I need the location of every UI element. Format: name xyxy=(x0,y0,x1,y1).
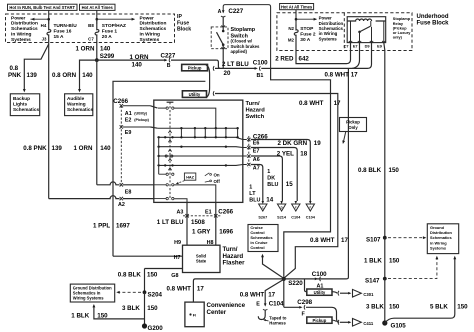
svg-text:in Wiring: in Wiring xyxy=(11,32,32,38)
turn/hazard flasher box xyxy=(183,245,221,272)
svg-text:18: 18 xyxy=(300,150,307,157)
svg-text:Systems: Systems xyxy=(11,37,31,43)
splice S147 xyxy=(383,277,387,281)
wire 1 BLK 150 up to ground dist box xyxy=(94,306,145,319)
svg-text:Distribution: Distribution xyxy=(140,21,167,27)
svg-text:150: 150 xyxy=(457,304,468,311)
svg-text:Systems: Systems xyxy=(140,37,160,43)
svg-text:E7: E7 xyxy=(253,149,260,155)
wire: 0.8 WHT continues to relay xyxy=(271,67,352,69)
svg-text:C227: C227 xyxy=(161,53,176,60)
svg-text:C: C xyxy=(262,206,264,210)
wire 5 BLK 150 xyxy=(385,258,455,324)
svg-text:C7: C7 xyxy=(88,36,94,41)
svg-text:F: F xyxy=(295,206,297,210)
wire S220 to C104 E stub xyxy=(265,280,282,305)
box: Ground Distribution Schematics (left) xyxy=(70,284,114,302)
svg-text:3 BLK: 3 BLK xyxy=(122,305,140,312)
svg-text:17: 17 xyxy=(197,286,204,293)
svg-text:0.8 WHT: 0.8 WHT xyxy=(299,100,324,107)
svg-text:E7: E7 xyxy=(353,44,358,49)
svg-text:Flasher: Flasher xyxy=(223,260,246,267)
svg-text:140: 140 xyxy=(100,46,111,53)
svg-text:E9: E9 xyxy=(377,44,383,49)
ground G200 xyxy=(142,323,147,328)
header box: Hot In RUN, Bulb Test And START xyxy=(8,4,78,10)
svg-text:(Pickup): (Pickup) xyxy=(134,118,149,122)
svg-text:C227: C227 xyxy=(228,8,243,15)
wire: PPL flasher feed top xyxy=(113,81,205,256)
svg-text:1697: 1697 xyxy=(116,222,130,229)
wire: 0.8 BLK 150 from relay E9 xyxy=(384,43,385,238)
connector C100 pin B1 xyxy=(255,67,258,70)
svg-text:STOP: STOP xyxy=(300,26,314,32)
svg-text:(Pickup: (Pickup xyxy=(393,26,407,30)
wire 1 GRY 1696 xyxy=(215,216,217,245)
svg-text:A7: A7 xyxy=(253,166,260,172)
triangle connector S214 xyxy=(277,204,285,211)
connector C100 pin A1 xyxy=(315,278,318,281)
svg-text:Fuse: Fuse xyxy=(177,20,189,26)
svg-text:1 ORN: 1 ORN xyxy=(76,46,95,53)
svg-text:15: 15 xyxy=(286,181,293,188)
wire E8 feed with hop over PPL xyxy=(97,182,120,185)
wire branch to backup lights xyxy=(24,44,48,91)
svg-text:C104: C104 xyxy=(291,215,301,219)
Utility tag xyxy=(182,91,206,98)
svg-text:C266: C266 xyxy=(113,98,128,105)
svg-text:D: D xyxy=(281,206,283,210)
svg-text:B8: B8 xyxy=(88,23,94,28)
switch actuator dashed line xyxy=(169,102,171,200)
arrow to power distribution note (left) xyxy=(31,18,49,20)
connector into C301 xyxy=(337,291,340,296)
svg-text:Schematics: Schematics xyxy=(140,26,167,32)
svg-text:E8: E8 xyxy=(125,190,132,196)
svg-text:S204: S204 xyxy=(148,291,163,298)
triangle connector C301 xyxy=(348,292,351,295)
svg-text:(Utility): (Utility) xyxy=(134,112,147,116)
svg-text:Hot At All Times: Hot At All Times xyxy=(281,5,313,10)
svg-text:1 ORN: 1 ORN xyxy=(130,54,149,61)
svg-text:S220: S220 xyxy=(288,280,303,287)
svg-text:14: 14 xyxy=(266,197,273,204)
contact row 2 (E7) xyxy=(157,146,242,149)
arrow to power distribution note (fuse2) xyxy=(295,19,297,24)
connector into C411 xyxy=(337,320,340,325)
svg-text:C266: C266 xyxy=(218,209,233,216)
svg-text:PNK: PNK xyxy=(8,72,22,79)
svg-text:Power: Power xyxy=(11,15,26,21)
svg-text:S107: S107 xyxy=(366,237,381,244)
connector C266 bottom row xyxy=(183,215,222,217)
svg-text:F: F xyxy=(309,206,311,210)
svg-text:E: E xyxy=(256,302,260,308)
lead from header to fuse 2 xyxy=(295,10,297,25)
Pickup tag (lower) xyxy=(307,317,332,323)
svg-text:DK: DK xyxy=(267,176,275,182)
splice S204 xyxy=(143,290,147,294)
hazard contact row xyxy=(159,173,166,175)
options brace xyxy=(206,65,210,98)
wire A2 feed with hop over PPL xyxy=(49,196,120,199)
svg-text:642: 642 xyxy=(299,55,310,62)
svg-text:E1: E1 xyxy=(205,210,212,216)
box: Backup Lights Schematics xyxy=(10,94,39,116)
svg-text:0.8 BLK: 0.8 BLK xyxy=(118,271,142,278)
triangle connector S267 xyxy=(259,204,267,211)
svg-text:Fl: Fl xyxy=(193,313,196,317)
svg-text:C301: C301 xyxy=(363,292,374,297)
svg-text:M2: M2 xyxy=(288,37,295,42)
svg-text:Distribution: Distribution xyxy=(11,21,38,27)
svg-text:C104: C104 xyxy=(306,215,316,219)
contact row 1 (E6) xyxy=(157,137,242,139)
svg-text:20: 20 xyxy=(224,70,231,77)
svg-text:0.8 BLK: 0.8 BLK xyxy=(358,167,382,174)
lead from header to fuse H4 xyxy=(48,10,50,24)
triangle connector C411 xyxy=(348,321,351,324)
svg-text:G8: G8 xyxy=(171,273,178,279)
svg-text:Wiring Systems: Wiring Systems xyxy=(73,296,104,301)
convenience center box xyxy=(185,302,204,327)
svg-text:150: 150 xyxy=(147,305,158,312)
svg-text:Fuse 1: Fuse 1 xyxy=(102,29,118,35)
svg-text:G105: G105 xyxy=(391,322,407,329)
svg-text:0.8 WHT: 0.8 WHT xyxy=(167,286,192,293)
wire branch to audible warning xyxy=(80,60,97,91)
wire: 2 RED 642 from STOP fuse xyxy=(296,41,351,64)
svg-text:E6: E6 xyxy=(253,141,260,147)
relay pin D9 curve xyxy=(352,43,372,69)
fuse STOP Fuse 2 30A xyxy=(294,25,298,41)
underhood fuse block dashed box xyxy=(277,13,412,51)
arrow S220 to cruise control box xyxy=(263,255,283,277)
box: Ground Distribution Schematics (right) xyxy=(427,224,458,254)
svg-text:0.8 WHT: 0.8 WHT xyxy=(310,237,335,244)
svg-text:C7: C7 xyxy=(344,44,349,49)
svg-text:2 DK GRN: 2 DK GRN xyxy=(278,140,308,147)
svg-text:or Luxury: or Luxury xyxy=(393,31,411,35)
svg-text:B: B xyxy=(167,63,171,69)
arrow to power distribution note (right) xyxy=(97,18,135,20)
svg-text:1: 1 xyxy=(249,185,252,191)
wire: 1 ORN 140 from S299 down to E8 xyxy=(96,60,98,185)
svg-text:LT: LT xyxy=(249,191,256,197)
IP Fuse Block dashed box xyxy=(6,14,175,43)
svg-text:5 BLK: 5 BLK xyxy=(430,304,448,311)
splice S299 xyxy=(95,58,99,62)
svg-text:Block: Block xyxy=(177,27,191,33)
wire continues to stoplamp switch drop xyxy=(171,59,216,61)
svg-text:Stoplamp: Stoplamp xyxy=(393,17,411,21)
row E8->E1 path xyxy=(154,184,166,186)
header box: Hot At All Times (IP) xyxy=(80,4,116,10)
svg-text:C298: C298 xyxy=(297,299,312,306)
comb row xyxy=(157,127,238,129)
dashed ref to ground dist box (left) xyxy=(119,291,142,293)
svg-text:E9: E9 xyxy=(125,130,132,136)
long 0.8 WHT 17 wire down from relay xyxy=(321,68,349,279)
svg-text:S299: S299 xyxy=(100,53,115,60)
branch to utility tag row xyxy=(305,279,307,292)
wire S220 to convenience center xyxy=(193,279,320,302)
svg-text:150: 150 xyxy=(389,167,400,174)
connector mark on 2 LT BLU wire xyxy=(212,66,215,71)
svg-text:150: 150 xyxy=(147,271,158,278)
stoplamp switch dashed box xyxy=(211,27,228,49)
svg-text:A3: A3 xyxy=(177,210,184,216)
box: Cruise Control Schematics xyxy=(248,225,278,252)
wire 1 BLK 150 xyxy=(384,238,386,279)
wire: stoplamp switch feed loop over top xyxy=(223,5,270,69)
wire: 1 ORN 140 from S299 to C227 xyxy=(97,59,166,61)
svg-text:140: 140 xyxy=(132,62,143,69)
svg-text:G200: G200 xyxy=(148,325,164,332)
actuator contact chevrons xyxy=(168,131,171,133)
svg-text:0.8 WHT: 0.8 WHT xyxy=(240,292,265,299)
splice S220 xyxy=(282,277,286,281)
contact row 3 (A6) xyxy=(157,155,242,157)
pin E7 wire 2 YEL 18 xyxy=(247,146,250,149)
svg-text:20 A: 20 A xyxy=(102,34,112,40)
wire S220 down to C298 F xyxy=(283,279,285,307)
svg-text:BLU: BLU xyxy=(249,198,260,204)
svg-text:Stoplamp: Stoplamp xyxy=(231,27,256,33)
svg-text:Only: Only xyxy=(348,125,358,130)
fuse TURN-B/U Fuse 16 15A xyxy=(47,24,51,41)
svg-text:S214: S214 xyxy=(277,215,287,219)
relay switch blade xyxy=(358,31,361,34)
svg-text:A2: A2 xyxy=(118,202,125,208)
svg-text:A6: A6 xyxy=(253,157,260,163)
svg-text:H7: H7 xyxy=(174,255,181,261)
svg-text:On: On xyxy=(214,172,220,177)
svg-text:Hot In RUN, Bulb Test And STAR: Hot In RUN, Bulb Test And START xyxy=(9,5,75,10)
svg-text:C100: C100 xyxy=(253,59,268,66)
Hot At All Times header box xyxy=(280,4,314,10)
triangle connector C104 (a) xyxy=(292,204,300,211)
wire: utility path to S220 xyxy=(215,94,338,278)
svg-text:Underhood: Underhood xyxy=(417,14,449,20)
connector C104 pin E xyxy=(264,303,267,306)
svg-text:1508: 1508 xyxy=(191,219,205,226)
svg-text:Control: Control xyxy=(250,245,264,250)
svg-text:17: 17 xyxy=(351,71,358,78)
svg-text:Relay: Relay xyxy=(393,22,404,26)
svg-text:Lights: Lights xyxy=(13,102,27,107)
svg-text:Turn/: Turn/ xyxy=(246,101,260,107)
wire: ORN from fuse C7 to S299 xyxy=(96,41,98,61)
svg-text:Utility: Utility xyxy=(314,290,326,295)
svg-text:0.8 ORN: 0.8 ORN xyxy=(52,72,77,79)
svg-text:Backup: Backup xyxy=(13,96,30,101)
svg-text:BLU: BLU xyxy=(267,182,278,188)
svg-text:Schematics: Schematics xyxy=(13,107,39,112)
svg-text:Hot At All Times: Hot At All Times xyxy=(82,5,114,10)
connector C266 right column xyxy=(248,136,250,168)
connector C227 pin A xyxy=(222,10,225,13)
svg-text:0.8 WHT: 0.8 WHT xyxy=(325,71,350,78)
pin leads into switch xyxy=(123,105,151,107)
svg-text:3 BLK: 3 BLK xyxy=(366,304,384,311)
wire 1 LT BLU 1508 xyxy=(186,216,188,245)
triangle connector C104 (b) xyxy=(306,204,314,211)
relay pin marks xyxy=(349,41,352,43)
relay pin leads xyxy=(350,21,352,43)
svg-text:1 PPL: 1 PPL xyxy=(93,222,110,229)
svg-text:D9: D9 xyxy=(365,44,371,49)
svg-text:1696: 1696 xyxy=(219,228,233,235)
svg-text:A: A xyxy=(218,9,222,15)
wire C298 F row xyxy=(284,306,301,308)
stoplamp switch contacts and blade xyxy=(222,30,225,33)
svg-text:2 LT BLU: 2 LT BLU xyxy=(222,61,249,68)
svg-text:1 BLK: 1 BLK xyxy=(364,257,382,264)
branch at B1 junction down xyxy=(271,68,331,276)
svg-text:17: 17 xyxy=(268,292,275,299)
svg-text:17: 17 xyxy=(341,237,348,244)
svg-text:N2: N2 xyxy=(288,26,294,31)
Pickup Only tag xyxy=(340,118,367,132)
wire PPL into H7 xyxy=(113,255,183,257)
svg-text:150: 150 xyxy=(389,304,400,311)
svg-text:Switch: Switch xyxy=(246,114,265,120)
svg-text:S147: S147 xyxy=(365,278,380,285)
svg-text:Schematics: Schematics xyxy=(67,107,93,112)
dashed ref from S147 up to ground dist box xyxy=(388,258,437,279)
svg-text:1 ORN: 1 ORN xyxy=(74,145,93,152)
svg-text:1 LT BLU: 1 LT BLU xyxy=(157,219,184,226)
svg-text:Harness: Harness xyxy=(269,321,286,326)
svg-text:1 BLK: 1 BLK xyxy=(71,312,89,319)
wire: 2 LT BLU 20 to C100 xyxy=(215,67,256,69)
Utility tag (lower) xyxy=(307,289,332,295)
pin A7 wire 1 LT BLU 14 xyxy=(247,163,250,166)
svg-text:C411: C411 xyxy=(363,321,373,326)
svg-text:0.8 PNK: 0.8 PNK xyxy=(23,145,47,152)
svg-text:Center: Center xyxy=(207,309,227,316)
svg-text:Fuse 16: Fuse 16 xyxy=(54,29,72,35)
svg-text:Warning: Warning xyxy=(67,102,86,107)
svg-text:H9: H9 xyxy=(174,240,181,246)
wire: PNK from fuse J3 down xyxy=(48,41,50,199)
fuse STOP/HAZ Fuse 1 20A xyxy=(95,24,99,41)
svg-text:Taped to: Taped to xyxy=(269,315,287,320)
dashed ref from S107 to ground dist box xyxy=(388,237,424,239)
svg-text:150: 150 xyxy=(389,257,400,264)
svg-text:C100: C100 xyxy=(312,271,327,278)
turn/hazard switch box xyxy=(154,100,243,202)
svg-text:150: 150 xyxy=(97,312,108,319)
svg-text:1 GRY: 1 GRY xyxy=(192,228,211,235)
svg-text:2 RED: 2 RED xyxy=(275,55,294,62)
relay coil xyxy=(347,19,386,21)
svg-text:A1: A1 xyxy=(125,111,132,117)
svg-text:1: 1 xyxy=(267,169,270,175)
svg-text:Pickup: Pickup xyxy=(346,119,360,124)
svg-text:Schematics: Schematics xyxy=(11,26,38,32)
svg-text:H4: H4 xyxy=(41,23,47,28)
box: Audible Warning Schematics xyxy=(65,94,93,116)
svg-text:19: 19 xyxy=(314,140,321,147)
svg-text:Audible: Audible xyxy=(67,96,85,101)
left column link xyxy=(158,137,160,174)
svg-text:140: 140 xyxy=(82,72,93,79)
svg-text:140: 140 xyxy=(100,145,111,152)
svg-text:Power: Power xyxy=(140,15,155,21)
svg-text:Off: Off xyxy=(214,179,221,184)
svg-text:applied): applied) xyxy=(231,49,248,54)
svg-text:C104: C104 xyxy=(269,301,284,308)
connector C227 pin B xyxy=(164,59,167,62)
pin A6 wire 1 DK BLU 15 xyxy=(247,154,250,157)
svg-text:J3: J3 xyxy=(42,36,47,41)
svg-text:only): only) xyxy=(393,36,403,40)
splice S107 xyxy=(383,236,387,240)
svg-text:Fuse 2: Fuse 2 xyxy=(300,31,316,37)
on/off legend xyxy=(210,174,212,176)
svg-text:in Wiring: in Wiring xyxy=(140,32,161,38)
Pickup tag xyxy=(182,64,208,70)
row A2->A3 path xyxy=(154,198,166,200)
svg-text:STOP/HAZ: STOP/HAZ xyxy=(102,23,126,29)
taped-to-harness stub xyxy=(258,310,265,319)
svg-text:E2: E2 xyxy=(125,117,132,123)
svg-text:H8: H8 xyxy=(207,240,214,246)
svg-text:30 A: 30 A xyxy=(300,37,310,43)
svg-text:139: 139 xyxy=(52,145,63,152)
wire 3 BLK 150 to G200 xyxy=(144,292,146,326)
svg-text:Hazard: Hazard xyxy=(246,108,266,114)
connector C266 left column xyxy=(120,106,122,185)
ground G105 xyxy=(382,320,387,325)
HAZ tag with arrow xyxy=(184,173,195,180)
row r1 with contact xyxy=(158,107,166,109)
contact row 4 (A7) xyxy=(157,164,242,167)
svg-text:Pickup: Pickup xyxy=(313,318,327,323)
svg-text:0.8: 0.8 xyxy=(10,65,19,72)
svg-text:Pickup: Pickup xyxy=(188,66,202,71)
relay pin E7 curve xyxy=(352,43,360,69)
svg-text:139: 139 xyxy=(27,72,38,79)
svg-text:TURN-B/U: TURN-B/U xyxy=(54,23,78,29)
svg-text:S267: S267 xyxy=(258,215,267,219)
connector mark on utility wire xyxy=(212,91,215,96)
svg-text:B1: B1 xyxy=(257,73,264,79)
pin E6 wire 2 DK GRN 19 xyxy=(247,138,250,141)
svg-text:Utility: Utility xyxy=(189,92,201,97)
svg-text:Fuse Block: Fuse Block xyxy=(417,20,450,26)
svg-text:State: State xyxy=(196,259,207,264)
svg-text:15 A: 15 A xyxy=(54,34,64,40)
svg-text:Systems: Systems xyxy=(319,36,338,41)
wire 3 BLK 150 to G105 xyxy=(384,279,386,323)
svg-text:HAZ: HAZ xyxy=(186,176,194,180)
stoplamp relay box xyxy=(347,17,386,43)
lead from header to fuse B8 xyxy=(96,10,98,24)
svg-text:IP: IP xyxy=(177,14,182,20)
svg-text:Systems: Systems xyxy=(430,246,446,251)
wire 0.8 BLK 150 from flasher G8 xyxy=(145,268,183,270)
